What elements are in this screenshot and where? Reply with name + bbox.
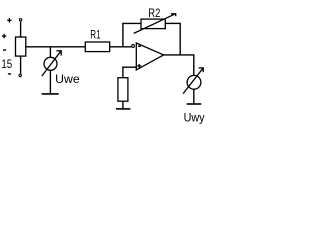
svg-text:Uwe: Uwe <box>55 72 80 86</box>
svg-text:R2: R2 <box>148 6 160 20</box>
svg-text:Uwy: Uwy <box>184 110 205 124</box>
svg-text:R1: R1 <box>90 28 101 42</box>
svg-text:15: 15 <box>1 57 12 71</box>
